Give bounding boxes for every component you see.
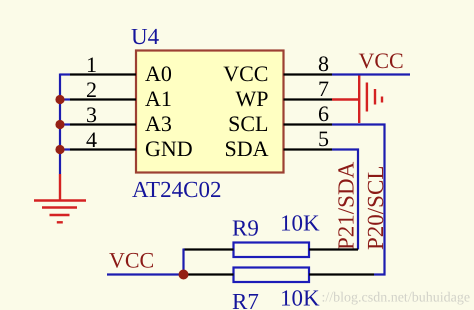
resistor R9 body bbox=[234, 243, 310, 258]
wire: R9 right lead (black) bbox=[309, 248, 358, 250]
pin 8 lead bbox=[284, 73, 333, 75]
junction at pin3 bbox=[55, 120, 64, 129]
svg-text:://blog.csdn.net/buhuidage: ://blog.csdn.net/buhuidage bbox=[322, 291, 471, 306]
junction at pin2 bbox=[55, 95, 64, 104]
svg-text:10K: 10K bbox=[280, 286, 320, 310]
svg-text:WP: WP bbox=[236, 86, 269, 111]
svg-text:U4: U4 bbox=[131, 24, 160, 49]
pin 3 lead bbox=[70, 123, 136, 125]
svg-text:VCC: VCC bbox=[109, 248, 154, 273]
svg-text:VCC: VCC bbox=[359, 48, 404, 73]
wire: VCC net from pin 8 bbox=[332, 73, 410, 75]
pin 7 lead bbox=[284, 98, 333, 100]
svg-text:4: 4 bbox=[86, 127, 97, 152]
svg-text:7: 7 bbox=[318, 76, 329, 101]
svg-text:2: 2 bbox=[86, 77, 97, 102]
svg-text:10K: 10K bbox=[280, 211, 320, 236]
ground (left earth symbol) bbox=[34, 174, 86, 222]
wire: SCL net from pin 6 bbox=[332, 125, 385, 275]
svg-text:GND: GND bbox=[145, 136, 193, 161]
svg-text:A1: A1 bbox=[145, 86, 172, 111]
svg-text:1: 1 bbox=[86, 52, 97, 77]
svg-text:SDA: SDA bbox=[224, 136, 268, 161]
pin 4 lead bbox=[70, 148, 136, 150]
pin 5 lead bbox=[284, 148, 333, 150]
svg-text:VCC: VCC bbox=[223, 61, 268, 86]
svg-text:3: 3 bbox=[86, 102, 97, 127]
wire: R9 left lead (black) bbox=[184, 248, 234, 250]
svg-text:A0: A0 bbox=[145, 61, 172, 86]
wire: R7 right lead (black) bbox=[309, 273, 374, 275]
svg-text:5: 5 bbox=[318, 126, 329, 151]
pin 1 lead bbox=[70, 73, 136, 75]
wire: VCC feed (bottom left, blue) bbox=[107, 273, 184, 275]
IC U4 AT24C02 body bbox=[136, 51, 284, 173]
wire: pin2 stub blue bbox=[60, 98, 70, 100]
resistor R7 body bbox=[234, 268, 310, 283]
svg-text:8: 8 bbox=[318, 51, 329, 76]
ground (right earth symbol at pin 7) bbox=[332, 76, 382, 124]
wire: SDA net from pin 5 bbox=[332, 150, 358, 250]
svg-text:R7: R7 bbox=[232, 289, 259, 310]
svg-text:A3: A3 bbox=[145, 111, 172, 136]
svg-text:6: 6 bbox=[318, 101, 329, 126]
svg-text:R9: R9 bbox=[232, 216, 259, 241]
junction at pin4 bbox=[55, 145, 64, 154]
wire: pin3 stub blue bbox=[60, 123, 70, 125]
svg-text:AT24C02: AT24C02 bbox=[132, 177, 221, 202]
wire: pin1 stub blue bbox=[60, 73, 70, 75]
wire: junction riser to R9 bbox=[182, 249, 184, 275]
pin 6 lead bbox=[284, 123, 333, 125]
svg-text:P21/SDA: P21/SDA bbox=[334, 161, 359, 250]
junction at VCC feed bbox=[179, 270, 189, 280]
wire: left vertical bus bbox=[59, 74, 61, 175]
svg-text:SCL: SCL bbox=[228, 111, 268, 136]
wire: R7 left lead (black) bbox=[184, 273, 234, 275]
wire: pin4 stub blue bbox=[60, 148, 70, 150]
pin 2 lead bbox=[70, 98, 136, 100]
svg-text:P20/SCL: P20/SCL bbox=[363, 166, 388, 250]
